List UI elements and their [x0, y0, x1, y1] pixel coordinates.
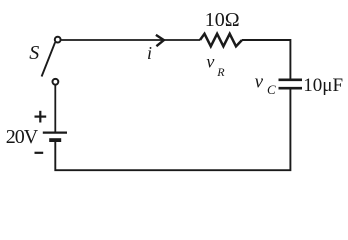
svg-text:20V: 20V: [6, 126, 39, 148]
switch S top terminal: [55, 37, 61, 43]
svg-text:v: v: [255, 72, 264, 93]
switch S bottom terminal: [53, 79, 59, 85]
resistor R 10ohm zigzag: [200, 34, 242, 47]
svg-text:v: v: [206, 51, 214, 71]
svg-text:10μF: 10μF: [303, 75, 343, 96]
plus sign: [35, 111, 47, 123]
svg-text:i: i: [147, 43, 152, 63]
svg-text:C: C: [267, 82, 276, 97]
switch S blade: [42, 42, 56, 76]
wire top: switch to resistor: [61, 39, 200, 41]
current arrow: [156, 35, 164, 46]
battery B1 short plate (-): [49, 138, 61, 142]
wire: battery to switch bottom terminal: [54, 82, 56, 133]
svg-text:R: R: [216, 65, 225, 79]
wire: capacitor down, bottom wire, up to battery minus: [55, 88, 290, 170]
svg-text:10Ω: 10Ω: [205, 9, 240, 31]
capacitor C top plate: [279, 78, 303, 81]
battery B1 long plate (+): [43, 132, 67, 134]
svg-text:S: S: [29, 42, 39, 64]
minus sign: [35, 152, 44, 154]
wire: resistor to top-right corner down to capacitor: [242, 40, 290, 80]
capacitor C bottom plate: [279, 87, 303, 90]
